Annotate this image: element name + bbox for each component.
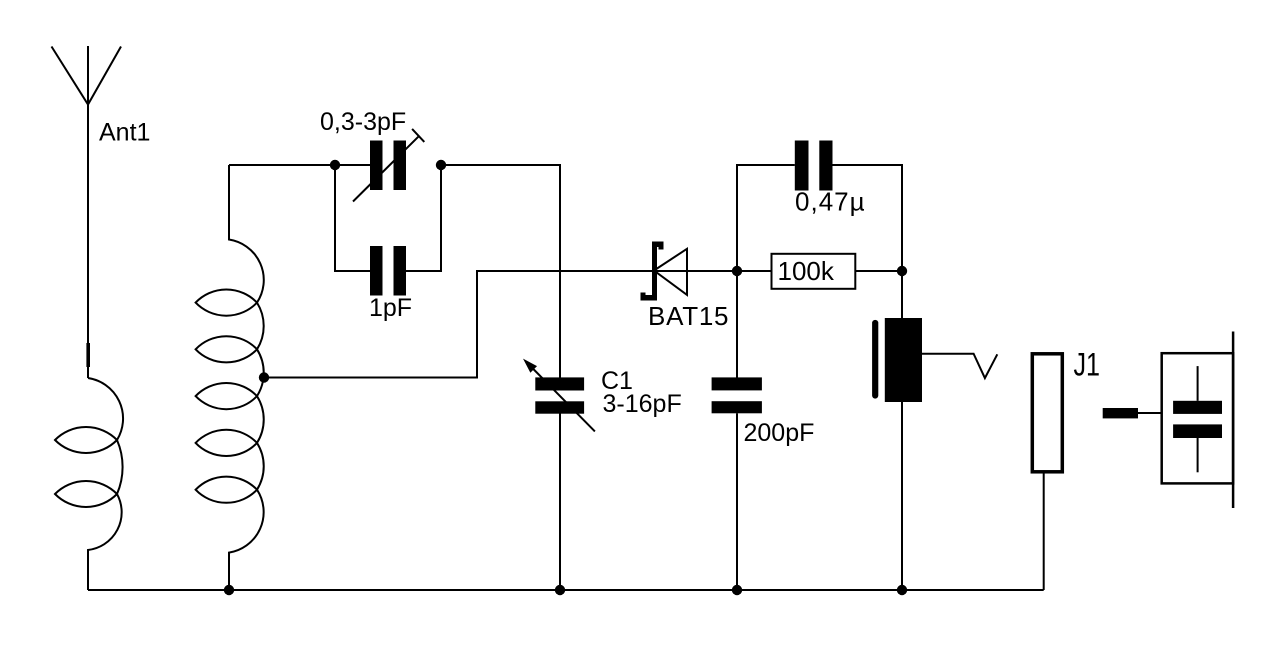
node dot rail piezo: [897, 585, 907, 595]
wire top row left: [229, 164, 371, 166]
svg-text:1pF: 1pF: [369, 294, 412, 322]
ground rail: [88, 589, 1044, 591]
diode BAT15 triangle: [654, 249, 687, 295]
svg-text:200pF: 200pF: [744, 419, 815, 447]
wire piezo vertical: [901, 271, 903, 590]
wire 1pF branch right: [406, 166, 441, 271]
diode BAT15 schottky cathode bar: [641, 242, 664, 301]
wire resistor right: [855, 270, 902, 272]
node dot trimmer left: [330, 160, 340, 170]
C1 adjust arrow: [533, 369, 595, 431]
inductor L1 (antenna coil): [55, 378, 123, 590]
wire piezo right with V end: [922, 354, 997, 378]
trimmer adjust arrow: [353, 129, 424, 202]
svg-text:BAT15: BAT15: [648, 301, 729, 331]
piezo transducer plate: [872, 320, 878, 399]
svg-text:J1: J1: [1074, 347, 1101, 383]
node dot rail 200pF: [732, 585, 742, 595]
resistor 100k box: [772, 254, 856, 289]
connector socket box: [1162, 353, 1233, 483]
wire C1 vertical: [559, 164, 561, 590]
capacitor 1pF plates: [370, 246, 383, 296]
svg-text:0,3-3pF: 0,3-3pF: [320, 108, 406, 136]
jack J1 body: [1032, 354, 1062, 472]
variable capacitor C1 plates: [535, 377, 584, 390]
wire 1pF branch left: [335, 165, 371, 271]
piezo transducer body: [885, 318, 922, 402]
node dot trimmer right: [436, 160, 446, 170]
wire plug to connector: [1138, 412, 1162, 414]
svg-text:100k: 100k: [778, 256, 835, 286]
node dot resistor right: [897, 266, 907, 276]
wire tap row: [264, 271, 772, 378]
node dot rail L2: [224, 585, 234, 595]
node dot diode output: [732, 266, 742, 276]
svg-text:3-16pF: 3-16pF: [603, 390, 682, 418]
connector right line: [1232, 332, 1235, 509]
svg-text:0,47µ: 0,47µ: [795, 187, 865, 217]
wire J1 bottom: [1043, 472, 1045, 591]
connector plug tip: [1103, 408, 1138, 418]
capacitor 0,47u plates: [795, 141, 809, 191]
node dot coil tap: [259, 372, 269, 382]
capacitor 200pF plates: [712, 377, 762, 390]
inductor L2 (tank coil): [196, 165, 264, 590]
wire 0,47u left: [737, 165, 795, 271]
wire top row right: [441, 164, 560, 166]
svg-text:Ant1: Ant1: [99, 119, 150, 147]
antenna Ant1: [52, 46, 122, 378]
connector inner plate top: [1173, 401, 1222, 414]
connector inner top lead: [1197, 366, 1199, 401]
node dot rail C1: [555, 585, 565, 595]
wire 0,47u right: [833, 165, 903, 271]
connector inner plate bottom: [1173, 424, 1222, 438]
trimmer capacitor 0,3-3pF plates: [370, 141, 383, 191]
wire 200pF vertical: [736, 271, 738, 590]
connector inner bottom lead: [1197, 438, 1199, 472]
